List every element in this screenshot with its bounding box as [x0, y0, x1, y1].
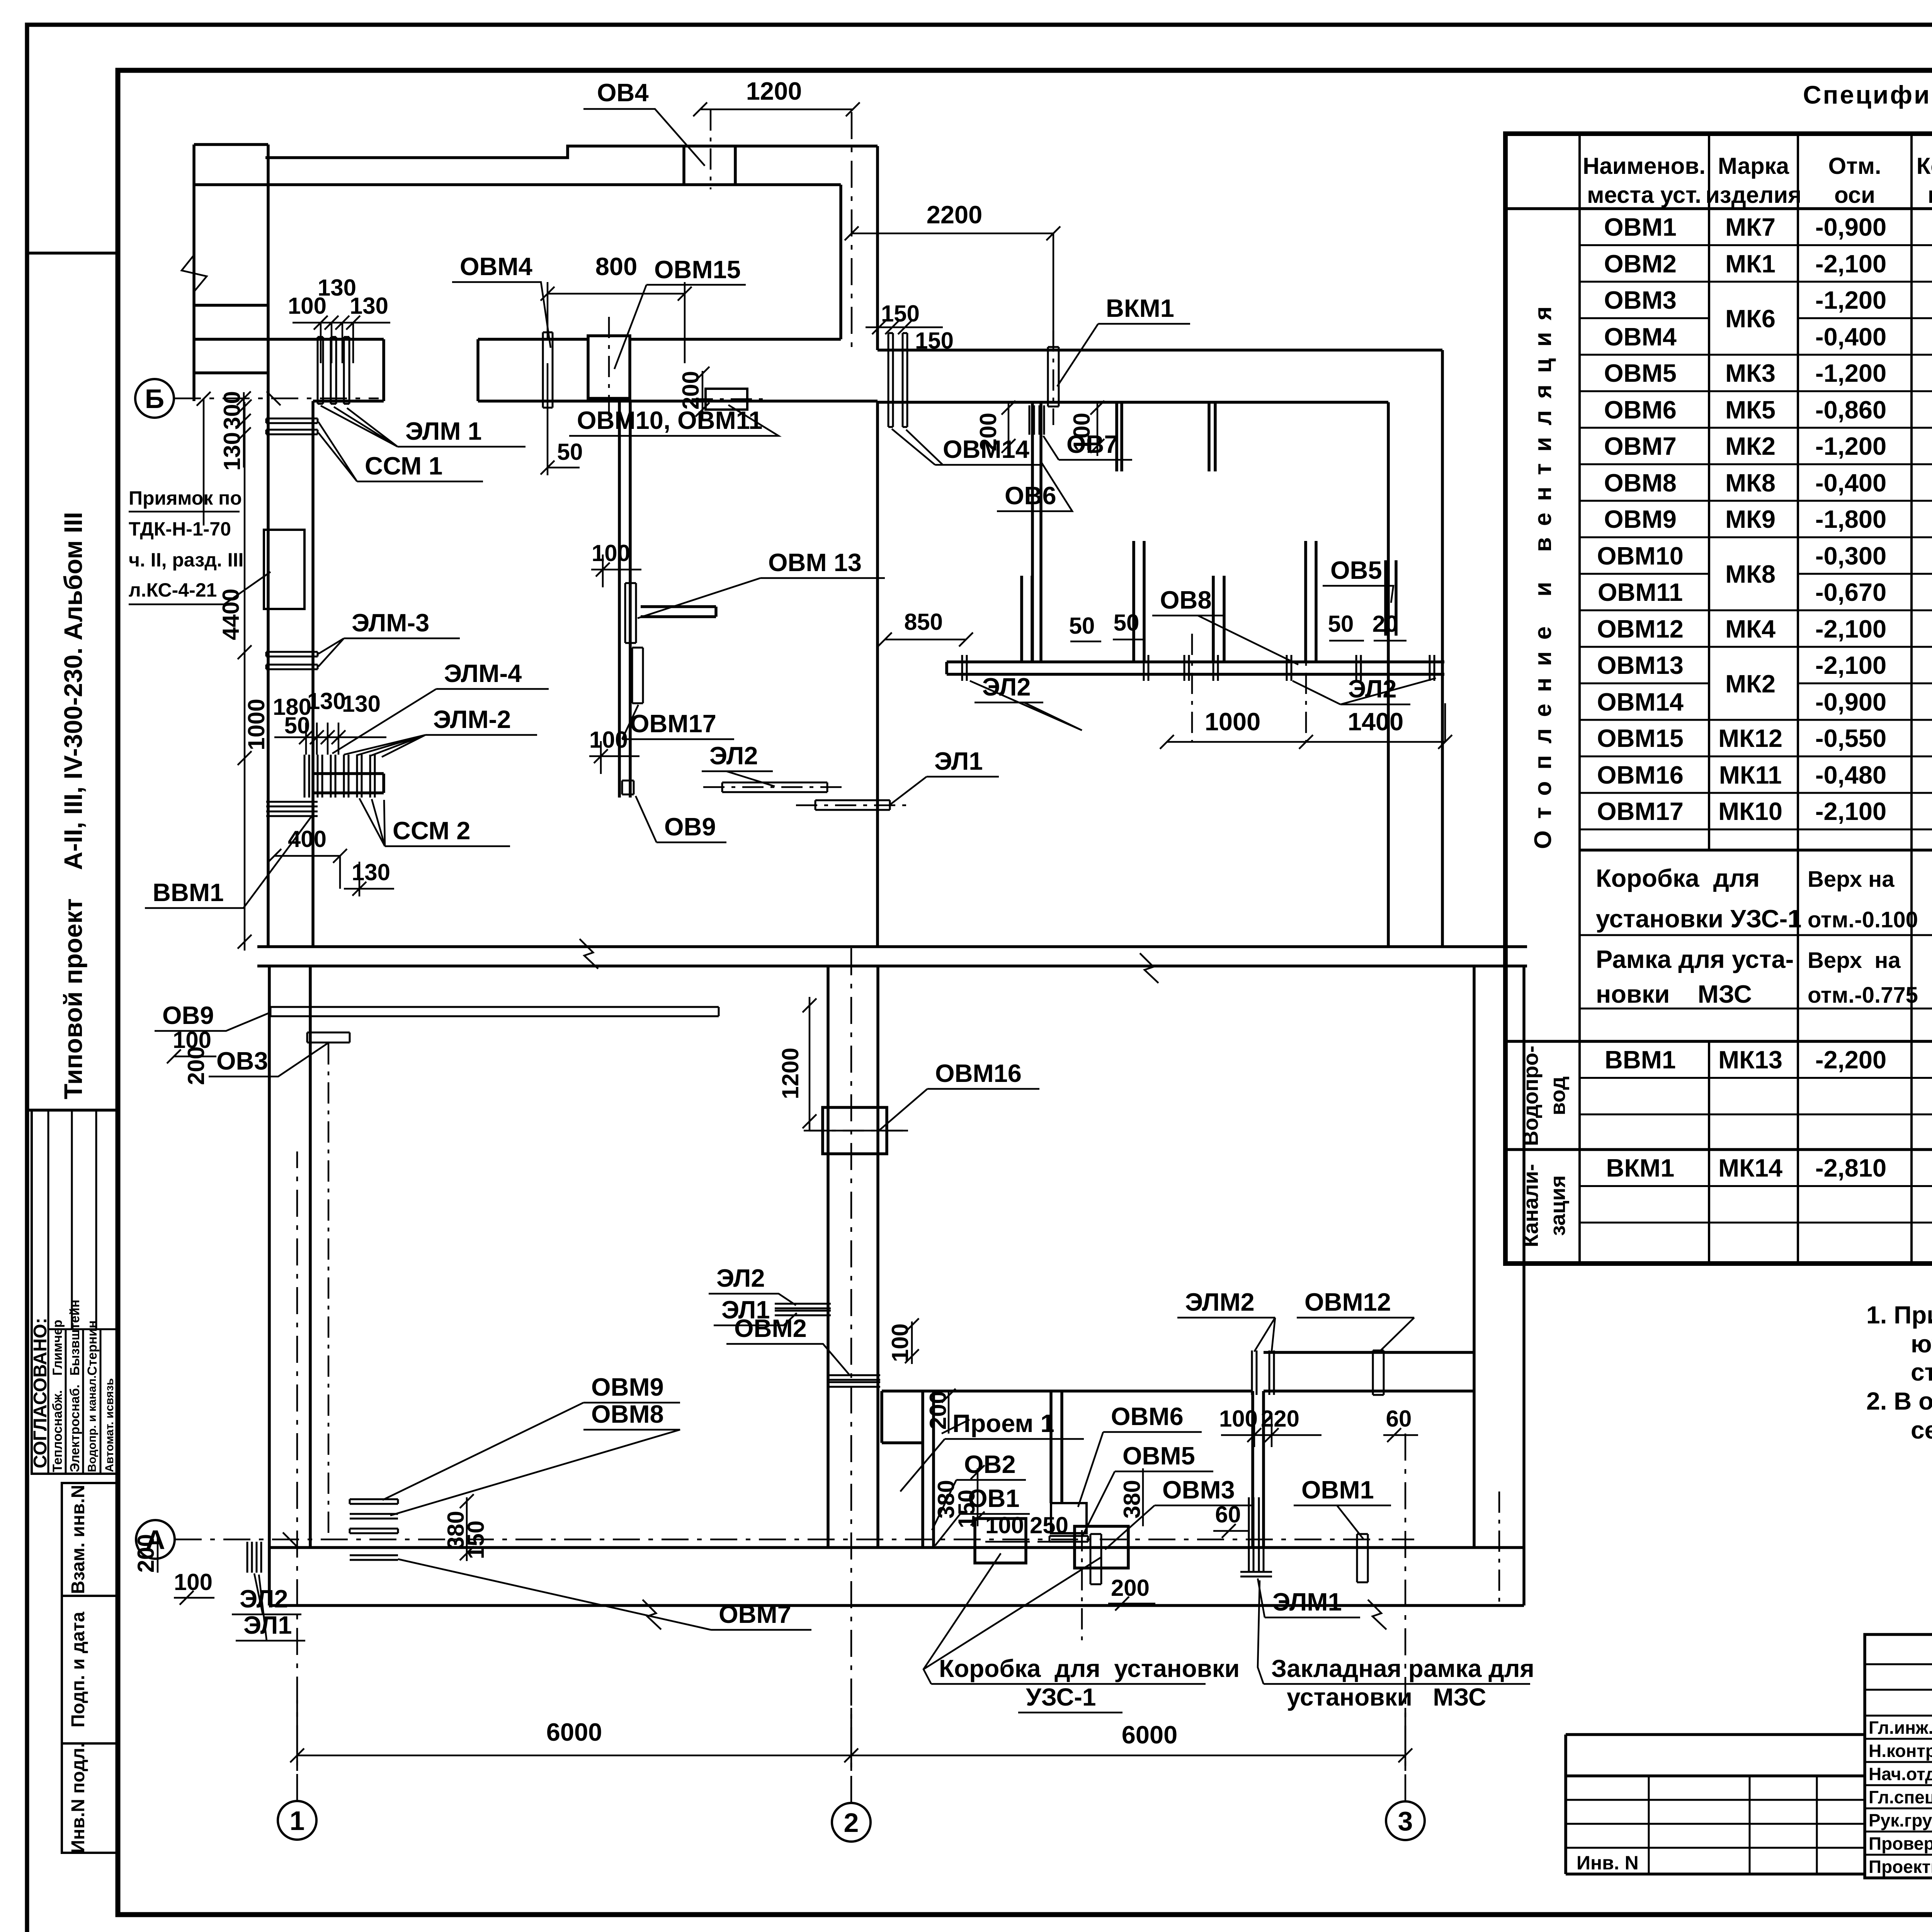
- svg-text:ЭЛ2: ЭЛ2: [716, 1264, 765, 1292]
- dim 1200 lower: [777, 997, 908, 1131]
- dims 200 100 bottom left: [133, 1534, 214, 1605]
- svg-text:1200: 1200: [777, 1048, 803, 1099]
- svg-text:ОВМ7: ОВМ7: [719, 1600, 791, 1628]
- detail УЗС-1 box 1: [975, 1519, 1026, 1563]
- wall: lower left: [269, 966, 310, 1548]
- dim 200 bottom: [1082, 1530, 1155, 1642]
- svg-text:МК14: МК14: [1718, 1154, 1782, 1182]
- svg-text:Проверил: Проверил: [1869, 1833, 1932, 1854]
- svg-text:-0,900: -0,900: [1815, 213, 1886, 241]
- svg-text:Гл.инж.пр: Гл.инж.пр: [1869, 1718, 1932, 1738]
- detail ОВМ17 tick: [632, 648, 643, 703]
- detail ОВМ10,ОВМ11 box: [692, 389, 765, 410]
- svg-text:МК7: МК7: [1725, 213, 1776, 241]
- svg-text:800: 800: [595, 252, 637, 281]
- svg-text:100: 100: [985, 1512, 1024, 1538]
- svg-text:Нач.отд.: Нач.отд.: [1869, 1764, 1932, 1784]
- wall: upper right outer: [1388, 350, 1442, 947]
- label ЭЛМ 1: [321, 406, 526, 447]
- dim 100 at ОВ7: [1069, 401, 1104, 456]
- left table row lines: [1505, 245, 1932, 1223]
- svg-text:Проектир: Проектир: [1869, 1857, 1932, 1877]
- partition: room A right: [876, 402, 879, 947]
- svg-text:ОВМ11: ОВМ11: [1598, 578, 1683, 606]
- svg-text:220: 220: [1261, 1406, 1299, 1432]
- svg-text:Инв. N: Инв. N: [1577, 1852, 1639, 1874]
- detail ОВМ15 box: [588, 317, 630, 421]
- dim 4400 and pit: [218, 400, 304, 951]
- detail ОВМ4 tick: [543, 332, 553, 408]
- label ОВМ17: [622, 705, 734, 739]
- detail ВВМ1 bars: [266, 802, 318, 816]
- svg-text:ВВМ1: ВВМ1: [1605, 1046, 1676, 1074]
- label ССМ 2: [359, 798, 510, 846]
- left table header: [1583, 153, 1932, 208]
- dim 1000: [243, 699, 269, 750]
- svg-text:ОВ7: ОВ7: [1066, 430, 1118, 458]
- title block: signatures grid: [1865, 1634, 1932, 1878]
- svg-text:отм.-0.775: отм.-0.775: [1808, 983, 1918, 1008]
- svg-text:МК5: МК5: [1725, 396, 1776, 424]
- detail ЭЛМ-3 bars: [266, 652, 318, 669]
- svg-text:Электроснаб.: Электроснаб.: [68, 1384, 82, 1472]
- dims 380 150 100 250 380: [933, 1465, 1145, 1542]
- sidebar box: Подп. и дата: [62, 1596, 118, 1743]
- dim 800: [541, 252, 692, 363]
- svg-text:Канали-: Канали-: [1519, 1164, 1543, 1247]
- wall: corridor band: [878, 350, 1442, 402]
- left specification table frame: [1505, 134, 1932, 1264]
- svg-text:ССМ 2: ССМ 2: [393, 816, 470, 845]
- svg-text:ОВМ2: ОВМ2: [1604, 250, 1677, 278]
- svg-text:Марка: Марка: [1718, 153, 1789, 179]
- svg-text:150: 150: [915, 328, 954, 354]
- wall: lower bottom: [269, 1548, 1524, 1605]
- detail ЭЛ bottom-left ticks: [247, 1542, 261, 1573]
- detail ЭЛ1 bars center wall: [775, 1304, 831, 1315]
- svg-text:Наименов.: Наименов.: [1583, 153, 1706, 179]
- svg-text:ЭЛМ-2: ЭЛМ-2: [433, 705, 511, 733]
- wall stub at ЭЛМ cluster: [313, 774, 384, 793]
- label Проем 1: [900, 1409, 1084, 1492]
- svg-text:Бызвштейн: Бызвштейн: [68, 1299, 82, 1376]
- labels ЭЛ2 ЭЛ1 center wall: [709, 1264, 797, 1325]
- label ОВ8: [1152, 586, 1298, 665]
- detail ОВ9 tick on partition: [622, 781, 634, 794]
- axis А: [136, 1520, 1414, 1559]
- notes text: [1866, 1301, 1932, 1444]
- svg-text:Взам. инв.N: Взам. инв.N: [68, 1485, 88, 1594]
- svg-text:МК2: МК2: [1725, 432, 1776, 460]
- svg-text:ОВ3: ОВ3: [216, 1047, 268, 1075]
- svg-text:Закладная рамка для: Закладная рамка для: [1271, 1655, 1534, 1682]
- svg-text:Подп. и дата: Подп. и дата: [68, 1612, 88, 1728]
- label ОВМ16: [877, 1059, 1039, 1132]
- dim 400 130: [267, 826, 394, 896]
- svg-text:-0,550: -0,550: [1815, 724, 1886, 752]
- dims 150 150: [866, 301, 954, 354]
- dim 200 at ОВ6: [975, 401, 1015, 456]
- detail ЭЛМ1 bottom bars: [1240, 1497, 1272, 1577]
- svg-text:МК11: МК11: [1719, 761, 1782, 789]
- detail УЗС-1 box 2: [1075, 1526, 1128, 1568]
- label Приямок note: [129, 487, 270, 604]
- svg-text:ЭЛ1: ЭЛ1: [721, 1296, 770, 1324]
- svg-text:-0,900: -0,900: [1815, 688, 1886, 716]
- left table group labels: [1519, 295, 1570, 1247]
- svg-text:ОВМ3: ОВМ3: [1604, 286, 1677, 314]
- label ССМ 1: [318, 422, 483, 481]
- svg-text:ОВМ9: ОВМ9: [1604, 505, 1677, 533]
- label ЭЛМ-2: [344, 705, 537, 757]
- dim 200 at Проем: [925, 1389, 969, 1434]
- detail ССМ1 bars: [266, 418, 318, 434]
- svg-text:3: 3: [1398, 1806, 1413, 1836]
- svg-text:МК8: МК8: [1725, 469, 1776, 497]
- svg-text:ОВ9: ОВ9: [664, 813, 716, 841]
- svg-text:ОВ8: ОВ8: [1160, 586, 1212, 614]
- svg-text:ОВМ13: ОВМ13: [1597, 651, 1684, 679]
- svg-text:-2,810: -2,810: [1815, 1154, 1886, 1182]
- axis Б: [135, 379, 379, 418]
- dim 1000 1400: [1160, 703, 1452, 749]
- svg-text:ОВМ8: ОВМ8: [591, 1400, 664, 1428]
- dim 100 lower: [589, 727, 639, 774]
- svg-text:-2,200: -2,200: [1815, 1046, 1886, 1074]
- svg-text:МК1: МК1: [1725, 250, 1776, 278]
- svg-text:-0,300: -0,300: [1815, 542, 1886, 570]
- dim 100 at ОВМ2: [887, 1318, 919, 1364]
- svg-text:-2,100: -2,100: [1815, 250, 1886, 278]
- partition stub in room A: [619, 401, 716, 798]
- svg-text:ОВМ 13: ОВМ 13: [768, 548, 862, 577]
- svg-text:ОВМ5: ОВМ5: [1122, 1442, 1195, 1470]
- svg-text:ОВМ1: ОВМ1: [1301, 1476, 1374, 1504]
- label ЭЛ1 upper: [889, 747, 999, 806]
- svg-text:МК3: МК3: [1725, 359, 1776, 387]
- dim 60 at ЭЛМ1: [1213, 1502, 1248, 1538]
- detail ОВМ13 tick: [625, 583, 636, 643]
- dim 2200: [845, 201, 1060, 344]
- svg-text:-1,200: -1,200: [1815, 432, 1886, 460]
- labels ОВ2 ОВ1: [932, 1450, 1030, 1546]
- svg-text:Верх на: Верх на: [1808, 948, 1901, 973]
- svg-text:штук: штук: [1928, 182, 1932, 208]
- dims 180 130 130 50: [273, 688, 386, 755]
- svg-text:ЭЛМ-3: ЭЛМ-3: [352, 609, 429, 637]
- break band between sections: [257, 947, 1527, 966]
- title block: signature names: [1869, 1718, 1932, 1877]
- svg-text:1400: 1400: [1348, 707, 1404, 736]
- svg-text:ОВМ10, ОВМ11: ОВМ10, ОВМ11: [577, 406, 762, 434]
- dim 850: [878, 609, 973, 646]
- wall: corner verticals: [841, 146, 878, 350]
- svg-text:Верх на: Верх на: [1808, 867, 1895, 892]
- svg-text:ОВМ6: ОВМ6: [1111, 1402, 1184, 1430]
- detail ЭЛМ-4/ЭЛМ-2/ССМ2 bar cluster: [304, 755, 375, 798]
- sill ticks: [962, 655, 1434, 681]
- svg-text:200: 200: [1111, 1575, 1150, 1601]
- svg-text:ВКМ1: ВКМ1: [1606, 1154, 1675, 1182]
- svg-text:50: 50: [557, 439, 583, 465]
- svg-text:вод: вод: [1546, 1077, 1570, 1116]
- svg-text:места уст.: места уст.: [1587, 182, 1701, 208]
- wall: lower center (axis 2): [828, 966, 878, 1548]
- svg-text:Теплоснабж.: Теплоснабж.: [50, 1390, 65, 1472]
- svg-text:ВКМ1: ВКМ1: [1106, 294, 1174, 322]
- svg-text:Кол-во: Кол-во: [1917, 153, 1932, 179]
- detail ОВМ2 bars: [828, 1375, 880, 1387]
- svg-text:МК13: МК13: [1718, 1046, 1782, 1074]
- svg-text:ЭЛ1: ЭЛ1: [934, 747, 983, 775]
- svg-text:-0,860: -0,860: [1815, 396, 1886, 424]
- svg-text:130: 130: [342, 691, 381, 717]
- svg-text:2200: 2200: [927, 201, 983, 229]
- svg-text:ОВМ6: ОВМ6: [1604, 396, 1677, 424]
- label ЭЛМ2: [1177, 1288, 1275, 1352]
- svg-text:6000: 6000: [1122, 1721, 1178, 1749]
- svg-text:Проем 1: Проем 1: [952, 1409, 1054, 1437]
- svg-text:200: 200: [133, 1534, 159, 1573]
- label ОВ9 upper: [155, 1001, 270, 1031]
- detail ОВМ8/ОВМ9 bar stack: [350, 1499, 398, 1560]
- detail ВКМ1 bar: [1048, 330, 1059, 425]
- svg-text:ЭЛМ2: ЭЛМ2: [1185, 1288, 1255, 1316]
- label ЭЛ2 room A: [702, 742, 775, 786]
- axis 1: [278, 1151, 316, 1840]
- detail ОВМ16 box: [804, 1107, 906, 1154]
- svg-text:ч. II, разд. III: ч. II, разд. III: [129, 549, 243, 571]
- detail ЭЛ2 bar room A: [703, 782, 846, 792]
- svg-text:Гл.спец.: Гл.спец.: [1869, 1787, 1932, 1807]
- dims 380 150 left: [443, 1494, 489, 1561]
- svg-text:Стернин: Стернин: [85, 1320, 100, 1376]
- svg-text:-0,670: -0,670: [1815, 578, 1886, 606]
- svg-text:100: 100: [592, 540, 630, 566]
- svg-text:оси: оси: [1834, 182, 1875, 208]
- svg-text:Рамка для уста-: Рамка для уста-: [1596, 945, 1794, 973]
- svg-text:Автомат. исвязь: Автомат. исвязь: [103, 1378, 116, 1472]
- wall: top-left pillar and pit: [194, 145, 268, 401]
- svg-text:2. В отверстия ОВ8 вставляю: 2. В отверстия ОВ8 вставляются решетки Р…: [1866, 1387, 1932, 1415]
- detail ОВМ1 tick: [1357, 1534, 1368, 1582]
- svg-text:серии 1.494-10.: серии 1.494-10.: [1911, 1416, 1932, 1444]
- svg-text:1: 1: [290, 1806, 305, 1836]
- svg-text:ются „по месту" в местах: ются „по месту" в местах прохода вертика…: [1911, 1330, 1932, 1358]
- label ОВМ5: [1082, 1442, 1213, 1537]
- svg-text:ОВМ15: ОВМ15: [654, 255, 741, 284]
- svg-text:130: 130: [350, 293, 388, 319]
- svg-text:-0,480: -0,480: [1815, 761, 1886, 789]
- label ОВМ12: [1297, 1288, 1414, 1352]
- svg-text:Приямок по: Приямок по: [129, 487, 242, 509]
- dims 100 220 60: [1219, 1406, 1418, 1447]
- svg-text:ТДК-Н-1-70: ТДК-Н-1-70: [129, 518, 231, 540]
- svg-text:ОВМ3: ОВМ3: [1162, 1476, 1235, 1504]
- svg-text:стержней арматурных каркасов: стержней арматурных каркасов.: [1911, 1358, 1932, 1386]
- svg-text:ОВ5: ОВ5: [1330, 556, 1382, 584]
- partition stubs above sill: [1022, 541, 1396, 662]
- labels ЭЛ2 ЭЛ1 bottom left: [232, 1573, 305, 1641]
- svg-text:Рук.груп.: Рук.груп.: [1869, 1810, 1932, 1830]
- label ВКМ1: [1057, 294, 1190, 386]
- svg-text:50: 50: [1328, 611, 1354, 637]
- dim 50: [541, 363, 583, 475]
- svg-text:50: 50: [1114, 610, 1139, 636]
- svg-text:150: 150: [954, 1490, 980, 1528]
- label ОВМ14: [892, 429, 1043, 465]
- label ОВМ6: [1078, 1402, 1202, 1507]
- svg-text:Типовой проект А-II, III,: Типовой проект А-II, III, IV-300-230. Ал…: [59, 512, 87, 1099]
- label ОВ5: [1323, 556, 1393, 603]
- svg-text:200: 200: [183, 1046, 209, 1085]
- partition: lower rooms: [882, 1352, 1474, 1548]
- svg-text:100: 100: [1219, 1406, 1258, 1432]
- svg-text:Инв.N подл.: Инв.N подл.: [68, 1743, 88, 1853]
- svg-text:Отм.: Отм.: [1828, 153, 1881, 179]
- label Коробка для установки УЗС-1: [923, 1553, 1240, 1713]
- svg-text:МК2: МК2: [1725, 670, 1776, 698]
- label ОВМ2: [726, 1314, 850, 1376]
- svg-text:ЭЛ2: ЭЛ2: [1348, 675, 1397, 703]
- svg-text:ОВМ8: ОВМ8: [1604, 469, 1677, 497]
- label ВВМ1: [145, 813, 314, 908]
- label ЭЛМ-4: [332, 659, 549, 753]
- label ОВМ10, ОВМ11: [569, 405, 779, 436]
- svg-text:-2,100: -2,100: [1815, 615, 1886, 643]
- svg-text:ВВМ1: ВВМ1: [153, 878, 224, 906]
- svg-text:ОВМ17: ОВМ17: [1597, 797, 1684, 825]
- svg-text:130: 130: [352, 859, 390, 885]
- label Закладная рамка для установки МЗС: [1258, 1580, 1534, 1711]
- axis 3: [1386, 1430, 1425, 1840]
- partition stubs below corridor: [1117, 402, 1215, 471]
- svg-text:Глимчер: Глимчер: [50, 1320, 65, 1376]
- label ОВ9 second: [636, 796, 726, 842]
- svg-text:ОВМ16: ОВМ16: [935, 1059, 1022, 1087]
- label ОВМ4: [452, 252, 551, 348]
- dim 200 at ОВМ10: [678, 367, 709, 419]
- svg-text:ЭЛ2: ЭЛ2: [709, 742, 758, 770]
- dim 6000 + 6000: [290, 1700, 1412, 1771]
- svg-text:-1,200: -1,200: [1815, 359, 1886, 387]
- detail ЭЛ1 bar: [796, 800, 908, 810]
- svg-text:60: 60: [1215, 1502, 1241, 1527]
- dims 50 50 50 20 at sill: [1069, 610, 1406, 641]
- svg-text:ОВМ16: ОВМ16: [1597, 761, 1684, 789]
- svg-text:ОВ9: ОВ9: [162, 1001, 214, 1029]
- label ОВ3: [209, 1043, 328, 1077]
- svg-text:ОВМ15: ОВМ15: [1597, 724, 1684, 752]
- sidebar stamp box: Типовой проект: [27, 253, 118, 1110]
- svg-text:ОВ6: ОВ6: [1005, 481, 1056, 510]
- svg-text:1000: 1000: [1205, 707, 1261, 736]
- label ОВМ15: [614, 255, 746, 369]
- detail ОВМ5 bar: [1049, 1536, 1088, 1542]
- detail ЭЛМ2 ticks: [1252, 1350, 1274, 1395]
- svg-text:установки МЗС: установки МЗС: [1287, 1683, 1486, 1711]
- svg-text:МК6: МК6: [1725, 304, 1776, 333]
- label ОВМ1: [1294, 1476, 1391, 1540]
- svg-text:ЭЛ2: ЭЛ2: [240, 1585, 288, 1613]
- svg-text:установки УЗС-1: установки УЗС-1: [1596, 905, 1801, 933]
- svg-text:60: 60: [1386, 1406, 1412, 1432]
- wall: lower right: [1474, 966, 1524, 1605]
- svg-text:-2,100: -2,100: [1815, 797, 1886, 825]
- axis 2: [832, 112, 871, 1842]
- break zigzag marks: [580, 939, 598, 969]
- svg-text:зация: зация: [1546, 1175, 1570, 1236]
- detail ЭЛМ1 bars: [318, 337, 349, 404]
- svg-text:ЭЛМ 1: ЭЛМ 1: [405, 417, 482, 445]
- detail ОВМ3 tick: [1090, 1534, 1101, 1584]
- wall: room A bottom band (axis Б): [194, 339, 878, 401]
- svg-text:ОВМ7: ОВМ7: [1604, 432, 1677, 460]
- svg-text:л.КС-4-21: л.КС-4-21: [129, 579, 217, 601]
- svg-text:Водопро-: Водопро-: [1519, 1046, 1543, 1146]
- label ОВМ3: [1105, 1476, 1254, 1549]
- detail ОВ8 hole centerlines: [1192, 634, 1306, 742]
- svg-text:ЭЛМ1: ЭЛМ1: [1272, 1588, 1342, 1616]
- svg-text:ОВ2: ОВ2: [964, 1450, 1016, 1478]
- svg-text:130: 130: [307, 688, 346, 714]
- svg-text:-0,400: -0,400: [1815, 469, 1886, 497]
- detail ОВ3 bar: [307, 1032, 350, 1534]
- svg-text:200: 200: [975, 413, 1001, 451]
- svg-text:отм.-0.100: отм.-0.100: [1808, 907, 1918, 932]
- dim 100 200 at ОВ3: [167, 1027, 216, 1085]
- label ОВ7: [1043, 430, 1132, 460]
- svg-text:ОВМ12: ОВМ12: [1304, 1288, 1391, 1316]
- svg-text:-1,800: -1,800: [1815, 505, 1886, 533]
- svg-text:ОВМ1: ОВМ1: [1604, 213, 1677, 241]
- svg-text:850: 850: [904, 609, 943, 635]
- svg-text:ЭЛ1: ЭЛ1: [243, 1611, 292, 1639]
- svg-text:-2,100: -2,100: [1815, 651, 1886, 679]
- svg-text:Водопр. и канал.: Водопр. и канал.: [86, 1375, 99, 1472]
- label ОВ6: [997, 462, 1072, 511]
- sidebar approvals table: [30, 1110, 118, 1474]
- label ОВ4: [583, 78, 705, 166]
- svg-text:ССМ 1: ССМ 1: [365, 452, 442, 480]
- svg-text:УЗС-1: УЗС-1: [1026, 1683, 1096, 1711]
- svg-text:Спецификация закладных детал: Спецификация закладных деталей: [1803, 80, 1932, 109]
- svg-text:4400: 4400: [218, 588, 244, 640]
- svg-text:МК4: МК4: [1725, 615, 1776, 643]
- svg-text:МК9: МК9: [1725, 505, 1776, 533]
- svg-text:ОВМ4: ОВМ4: [460, 252, 532, 281]
- label ЭЛМ1 bottom: [1258, 1578, 1360, 1617]
- svg-text:-1,200: -1,200: [1815, 286, 1886, 314]
- svg-text:1200: 1200: [746, 77, 802, 105]
- break mark on left wall: [182, 255, 207, 292]
- label ОВМ7: [398, 1559, 811, 1630]
- left table cell text: [1596, 213, 1932, 1182]
- detail ОВМ12 tick: [1373, 1350, 1384, 1395]
- break marks on bottom wall: [643, 1600, 661, 1629]
- detail ОВ9 bar upper: [270, 1007, 719, 1016]
- svg-text:50: 50: [1069, 613, 1095, 639]
- svg-text:МК12: МК12: [1718, 724, 1782, 752]
- svg-text:-0,400: -0,400: [1815, 323, 1886, 351]
- svg-text:400: 400: [288, 826, 327, 852]
- svg-text:Н.контр.сс: Н.контр.сс: [1869, 1741, 1932, 1761]
- svg-text:СОГЛАСОВАНО:: СОГЛАСОВАНО:: [30, 1318, 51, 1468]
- svg-text:МК8: МК8: [1725, 560, 1776, 588]
- title block: left attachment grid: [1566, 1735, 1865, 1874]
- label ОВМ9 ОВМ8: [383, 1373, 680, 1515]
- sidebar box: Взам. инв.N: [62, 1483, 118, 1596]
